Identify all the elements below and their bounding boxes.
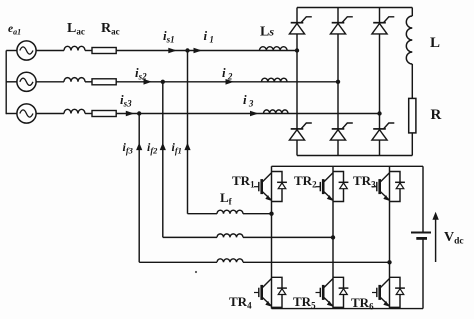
load branch wire — [411, 8, 413, 17]
AC source e_a3 — [17, 104, 36, 123]
current arrow i_f2 — [160, 143, 166, 151]
node: phase1-leg1 — [295, 48, 299, 52]
svg-text:TR2: TR2 — [294, 173, 317, 190]
thyristor T4 bottom, leg x=297.0 — [289, 123, 311, 140]
transistor TR5 (IGBT with antiparallel diode) — [316, 277, 349, 307]
svg-text:is3: is3 — [120, 92, 132, 109]
wire — [6, 113, 17, 115]
filter leg 2 wire — [332, 166, 334, 308]
DC link wire — [422, 166, 424, 232]
node: filter leg2 midpoint — [331, 235, 335, 239]
AC source e_a1 — [17, 41, 36, 60]
inductor Ls phase 2 — [262, 78, 288, 82]
transistor TR3 (IGBT with antiparallel diode) — [372, 172, 405, 202]
node: phase2-leg2 — [336, 80, 340, 84]
svg-text:is2: is2 — [135, 65, 147, 82]
node: row1 / filter drop junction — [185, 48, 189, 52]
thyristor T5 bottom, leg x=338.0 — [330, 123, 352, 140]
current arrow i_2 — [226, 79, 235, 85]
node: filter leg3 midpoint — [387, 260, 391, 264]
filter connection wire i_f3 — [139, 261, 217, 263]
filter drop wire from row1 (i_f1) — [187, 51, 189, 214]
svg-text:Lac: Lac — [67, 21, 85, 37]
rectifier bottom bus — [297, 155, 412, 157]
inductor Lf phase 2 — [217, 234, 243, 237]
filter connection wire i_f2 — [163, 236, 217, 238]
svg-text:if3: if3 — [123, 140, 134, 156]
transistor TR6 (IGBT with antiparallel diode) — [372, 277, 405, 307]
current arrow i_1 — [194, 48, 203, 54]
current arrow i_s1 — [168, 48, 177, 54]
stray speck — [195, 271, 197, 273]
current arrow i_3 — [250, 111, 259, 117]
Vdc arrow — [435, 218, 437, 262]
DC link wire — [422, 239, 424, 309]
svg-text:L: L — [430, 35, 440, 51]
svg-text:i 3: i 3 — [243, 92, 254, 109]
node: filter leg1 midpoint — [269, 212, 273, 216]
wire — [243, 236, 333, 238]
rectifier top bus — [297, 7, 412, 9]
inductor Ls phase 1 — [260, 47, 288, 51]
current arrow i_s2 — [144, 79, 153, 85]
thyristor T1 top, leg x=297.0 — [289, 17, 311, 34]
wire — [36, 81, 64, 83]
filter top bus — [272, 165, 424, 167]
wire — [411, 133, 413, 156]
transistor TR4 (IGBT with antiparallel diode) — [254, 277, 287, 307]
svg-text:Vdc: Vdc — [444, 230, 464, 247]
thyristor T3 top, leg x=379.5 — [372, 17, 394, 34]
node: row2 / filter drop junction — [161, 80, 165, 84]
inductor L_ac phase 1 — [64, 46, 85, 50]
battery Vdc negative plate — [416, 237, 427, 240]
wire — [85, 113, 92, 115]
inductor Lf phase 3 — [217, 259, 243, 263]
filter bottom bus — [272, 308, 424, 310]
svg-text:i 1: i 1 — [204, 28, 214, 45]
svg-text:if1: if1 — [172, 140, 182, 156]
current arrow i_f1 — [184, 143, 190, 151]
filter leg 3 wire — [389, 166, 391, 308]
node: row3 / filter drop junction — [137, 111, 141, 115]
svg-text:ea1: ea1 — [8, 23, 21, 37]
svg-text:is1: is1 — [163, 28, 175, 45]
wire — [243, 213, 272, 215]
inductor Ls phase 3 — [264, 110, 288, 114]
resistor R_ac phase 1 — [92, 48, 116, 54]
svg-text:TR4: TR4 — [229, 294, 252, 311]
wire — [36, 113, 64, 115]
transistor TR1 (IGBT with antiparallel diode) — [254, 172, 287, 202]
phase 3 wire — [116, 113, 379, 115]
wire — [6, 50, 17, 52]
current arrow i_s3 — [126, 111, 135, 117]
AC source e_a2 — [17, 72, 36, 91]
svg-text:TR6: TR6 — [351, 295, 374, 312]
wire — [36, 50, 64, 52]
filter drop wire from row2 (i_f2) — [162, 82, 164, 238]
bridge leg 3 wire — [379, 8, 381, 156]
left phase bus — [5, 51, 7, 115]
battery Vdc positive plate — [411, 232, 431, 234]
svg-text:TR5: TR5 — [293, 294, 316, 311]
bridge leg 1 wire — [296, 8, 298, 156]
resistor R_ac phase 3 — [92, 111, 116, 117]
thyristor T2 top, leg x=338.0 — [330, 17, 352, 34]
filter drop wire from row3 (i_f3) — [138, 114, 140, 263]
svg-text:R: R — [431, 107, 442, 123]
svg-text:TR3: TR3 — [353, 173, 376, 190]
wire — [85, 81, 92, 83]
svg-text:if2: if2 — [147, 140, 158, 156]
node: phase3-leg3 — [377, 111, 381, 115]
load inductor L — [406, 16, 412, 64]
current arrow i_f3 — [136, 143, 142, 151]
svg-text:Rac: Rac — [101, 21, 120, 37]
wire — [411, 64, 413, 98]
wire — [243, 261, 390, 263]
inductor L_ac phase 3 — [64, 109, 85, 113]
bridge leg 2 wire — [337, 8, 339, 156]
wire — [6, 81, 17, 83]
filter leg 1 wire — [271, 166, 273, 308]
svg-text:Lf: Lf — [220, 190, 233, 207]
svg-text:Ls: Ls — [260, 25, 274, 40]
wire — [85, 50, 92, 52]
inductor L_ac phase 2 — [64, 78, 85, 82]
phase 1 wire — [116, 50, 297, 52]
transistor TR2 (IGBT with antiparallel diode) — [316, 172, 349, 202]
load resistor R — [409, 98, 416, 132]
filter connection wire i_f1 — [188, 213, 218, 215]
svg-text:i 2: i 2 — [222, 65, 233, 82]
inductor Lf phase 1 — [217, 210, 243, 213]
thyristor T6 bottom, leg x=379.5 — [372, 123, 394, 140]
phase 2 wire — [116, 81, 338, 83]
resistor R_ac phase 2 — [92, 79, 116, 85]
svg-text:TR1: TR1 — [232, 173, 255, 190]
